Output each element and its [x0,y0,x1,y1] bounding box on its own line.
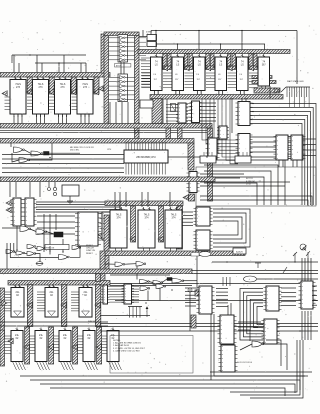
pin fan U45 [52,336,59,353]
wire [312,290,317,292]
gate U58A [252,341,264,347]
IC U9 [194,54,206,94]
wire [35,248,37,250]
bus [227,66,235,70]
bus arrow [49,89,54,95]
wire fan [281,291,296,293]
IC U12 [258,54,270,89]
pin fan U3 [49,97,55,109]
bus arrow [48,344,53,350]
svg-text:LS: LS [155,64,158,67]
wire [182,211,193,213]
IC U46 [83,328,95,362]
wire [44,114,46,124]
IC U33 [138,207,155,251]
label U11 [240,74,244,81]
wire loop [257,307,263,325]
gate U37A [6,250,15,254]
wire [192,283,300,285]
bus arrow [2,300,7,306]
wire [12,54,86,56]
wire [162,99,164,124]
oscillator Y1 [146,32,157,47]
wire bundle [36,202,120,230]
pin stub [222,277,230,286]
bus link [166,128,171,139]
wire staircase [204,183,257,205]
wire [230,340,297,392]
svg-text:2732: 2732 [246,184,252,186]
label note [70,147,94,152]
wire fan [250,120,305,206]
wire [147,291,149,301]
resistor R1 [62,185,79,196]
buffer array U6 [109,74,135,102]
wire [25,253,27,255]
wire fan [216,306,228,308]
bus [0,139,194,144]
wire [62,239,64,252]
rungs [288,138,291,156]
pin fan U10 [206,73,215,88]
gate U50B [156,284,166,289]
wire [21,114,23,124]
bus [206,54,210,68]
gate U37F [27,252,36,256]
bus [206,66,214,70]
wire [157,43,266,45]
gate U50A [140,286,150,291]
wire loop [213,221,238,235]
wire [125,263,136,266]
label [107,149,112,151]
wire [245,98,247,101]
bus arrow [95,302,100,308]
svg-text:Z80 CTRL: Z80 CTRL [70,150,80,152]
IC U16B [217,126,229,139]
wire loop [240,289,263,341]
wire [296,160,298,167]
wire [2,172,124,174]
wire vertical [310,311,312,340]
wire vertical [301,258,303,281]
bus [49,77,54,94]
bus [0,73,110,78]
wire [35,62,86,64]
wire fan [281,305,296,307]
wire [36,263,43,265]
bus arrow [2,91,7,97]
wire fan [250,156,276,158]
bus bridge [104,32,139,36]
IC U8 [172,54,184,94]
IC U19 [274,135,291,160]
bus link [96,274,101,282]
wire [185,305,196,307]
bus vertical wide [152,99,162,124]
note text [113,340,146,352]
bus arrow [227,65,232,71]
wire [10,257,59,259]
bus arrow [163,65,168,71]
wire fan [216,302,228,304]
wire [121,102,123,124]
wire [183,280,197,282]
wire [312,299,317,301]
bus [159,206,164,242]
svg-text:273: 273 [16,86,21,89]
wire [0,321,108,323]
pin fan U46 [76,336,83,353]
wire [9,182,11,197]
wire [69,196,71,201]
IC U43 [11,328,23,362]
IC U47 [101,285,110,304]
IC U35 [194,207,213,226]
bus [95,285,100,327]
IC U15B [171,104,176,112]
wire [182,218,193,220]
wire [35,254,40,263]
wire fan [216,298,228,300]
wire [9,243,11,258]
wire loop [263,344,287,370]
bus [131,206,136,242]
wire [257,278,318,280]
wire [175,91,177,95]
wire fan [250,141,276,143]
wire [196,255,198,290]
connector arrow [6,200,11,206]
wire [13,243,15,251]
wire [2,227,20,229]
relay K3 [167,278,172,281]
wire [200,109,217,111]
pin fan U15 left [166,105,178,122]
wire [182,214,193,216]
wire [212,261,318,263]
wire vertical [304,311,306,340]
svg-text:2. ALL CAP IN UF: 2. ALL CAP IN UF [113,344,130,347]
wire [17,114,19,124]
wire [36,55,38,77]
IC U11 [237,54,249,94]
capacitor C1 [53,187,56,195]
bus [61,285,66,327]
wire [185,294,196,296]
wire [200,120,217,122]
bus arrow [27,302,32,308]
IC U30 [100,212,115,240]
svg-text:374: 374 [172,217,177,220]
wire [240,340,300,395]
wire [43,214,45,252]
bus vertical right [208,128,213,201]
label [287,80,304,83]
wire riser [155,31,157,55]
gate U38F [153,281,163,285]
IC U56 [218,315,237,344]
pin fan U39 [3,292,11,311]
IC U4 [77,77,93,118]
bus arrow [130,236,135,242]
wire [37,221,75,223]
wire loop [213,213,246,243]
bus [105,251,245,256]
wire [46,232,54,235]
wire [29,182,31,197]
bus [0,124,212,129]
wire [185,298,196,300]
wire loop [266,340,281,366]
node A [98,234,102,238]
label [88,320,96,323]
wire [37,215,75,217]
IC U16 [206,138,220,159]
bus [73,327,78,364]
wire [12,153,19,162]
IC U27 [11,198,24,226]
bus left [0,330,5,366]
wire loop [213,209,250,247]
bus piece [195,290,200,296]
wire [200,173,244,175]
wire [66,114,68,124]
IC U57 [219,345,238,372]
bus arrow [61,302,66,308]
wire [192,273,318,275]
tee symbol [255,263,261,268]
bus [232,54,236,68]
resistor pack RP1 [281,87,310,107]
bus arrow [275,88,280,94]
gate U13A [14,147,25,153]
buffer U37E [45,245,69,250]
IC U10 [215,54,227,94]
IC U29 [75,212,101,246]
wire [13,114,15,124]
pin fan U4 [72,97,78,109]
pin fan U11 [228,73,237,88]
wire staircase [204,171,271,205]
IC U41 [79,285,92,318]
wire [119,192,121,207]
label U9 [197,74,201,81]
pin fan U47 [100,336,107,353]
wire [125,192,127,207]
wire [37,233,75,235]
svg-text:PWR ON: PWR ON [46,248,55,250]
bus vertical mid [188,143,194,170]
IC U18 [236,134,253,159]
wire [0,325,108,327]
wire [278,160,280,167]
svg-text:RESET: RESET [86,253,93,255]
svg-text:4 MHZ: 4 MHZ [146,32,153,34]
wire [147,192,149,207]
relay K1 [44,152,50,156]
wire [136,266,138,280]
wire fan [250,116,308,206]
bus [227,54,231,68]
wire [49,246,51,255]
wire loop [213,217,242,239]
ground [67,201,73,204]
wire [109,102,111,124]
IC U26 [187,172,200,193]
wire [312,304,317,306]
latch U21 [200,152,216,163]
off-page arrow [293,252,297,262]
wire [62,114,64,124]
wire [153,91,155,95]
wire [36,114,38,124]
gate U37B [16,251,25,255]
wire long [30,380,300,390]
boundary box [196,167,316,206]
node B [188,288,192,292]
wire [179,91,181,95]
label U5 [115,64,131,68]
wire [139,36,147,38]
wire [80,63,82,77]
wire [142,30,144,37]
wire staircase [204,177,264,205]
relay K2 [54,232,63,237]
wire [192,270,318,272]
wire long [20,375,305,377]
svg-text:374: 374 [117,217,122,220]
wire riser [177,44,179,54]
wire fan [250,108,313,206]
wire [100,323,318,325]
bus vertical left of buffers [104,33,109,128]
connector arrow [6,207,11,213]
wire [29,143,52,160]
wire [127,102,129,124]
bus [138,50,290,54]
wire [88,114,90,124]
IC U36 [194,230,213,250]
bus [252,81,276,84]
wire [2,167,124,169]
wire [185,301,196,303]
wire [2,163,124,165]
pin fan U2 [27,97,33,109]
wire [123,62,125,74]
gate U39B [14,311,22,316]
pin fan U9 [185,73,194,88]
wire [100,326,318,328]
wire fan [281,296,296,298]
bus [49,327,54,364]
pin fan U12 [249,73,258,88]
wire [200,196,312,206]
wire staircase [204,165,278,205]
pin fan [13,362,26,371]
wire [141,192,143,207]
svg-text:LS: LS [219,64,222,67]
IC U17 [236,102,253,126]
wire [282,160,284,167]
wire [48,182,50,187]
wire bundle [36,205,120,233]
wire [200,185,285,187]
bus [105,201,183,206]
bus [150,95,283,100]
IC U52 [264,286,282,311]
svg-text:D0 D1 D2 D3 D4: D0 D1 D2 D3 D4 [237,362,253,364]
off-page arrow 2 [306,251,310,262]
svg-text:A-BUS: A-BUS [236,251,243,254]
wire long [40,384,295,393]
IC U39 [11,285,24,318]
transistor Q1 [300,244,307,251]
wire fan [216,295,228,297]
wire [0,129,207,131]
wire [269,86,271,98]
wire [15,182,17,197]
wire [168,156,207,158]
gate U13C [19,158,30,163]
rungs [110,287,140,303]
label [237,362,253,364]
bus [8,281,110,286]
IC U51 [197,286,215,314]
wire [120,62,122,74]
wire [222,91,224,95]
wire [200,181,290,183]
gate U31B [36,229,47,235]
bus [254,88,280,93]
wire [200,113,217,115]
wire vertical [304,258,306,281]
bus arrow [249,65,254,71]
gate U40B [48,311,56,316]
wire [157,91,159,95]
IC U20 [289,135,306,160]
buffer array U5 [109,35,147,63]
wire [303,138,316,140]
bus arrow [24,344,29,350]
IC U3 [55,77,71,118]
wire [200,102,217,104]
wire [214,375,308,377]
wire [210,314,212,380]
bus [211,54,215,68]
bus corner [100,251,105,285]
wire fan [250,151,276,153]
connector pins J1 [141,58,150,87]
IC U34 [165,207,182,251]
svg-text:LS: LS [241,64,244,67]
bus arrow [184,65,189,71]
bus [0,288,5,338]
gate U38G [172,279,184,284]
wire vertical [310,258,312,281]
wire fan [250,124,302,206]
bus [25,327,30,364]
wire [2,154,124,156]
bus arrow [8,338,13,344]
IC U48 [122,284,135,304]
bus vertical [101,34,107,73]
wire [200,200,308,206]
capacitor C2 [48,188,51,191]
rungs [186,104,192,121]
svg-text:LS: LS [176,64,179,67]
label U7 [154,74,158,81]
